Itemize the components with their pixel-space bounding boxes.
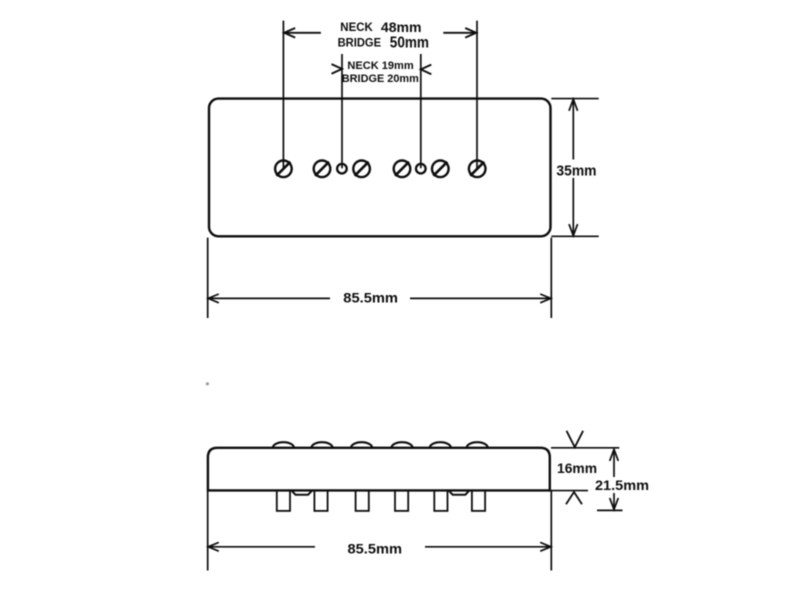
pole screw 2 (top view)	[314, 161, 331, 178]
svg-text:NECK: NECK	[340, 22, 373, 34]
extension line: side top right	[551, 447, 619, 449]
svg-text:BRIDGE 20mm: BRIDGE 20mm	[342, 73, 419, 85]
stray scan dot artifact	[206, 382, 209, 385]
pole screw 4 (top view)	[394, 161, 411, 178]
pole screw 5 (top view)	[432, 161, 449, 178]
pole screw shaft 2 (side view)	[314, 490, 327, 511]
extension line: outer left pole center	[282, 21, 284, 168]
pole screw shaft 4 (side view)	[395, 490, 408, 511]
pole screw shaft 3 (side view)	[356, 490, 369, 511]
arrowhead down onto top surface (16mm)	[567, 431, 584, 447]
pole screw head 2 (side view)	[312, 442, 333, 447]
extension line: side right down to 85.5 dim	[550, 491, 552, 571]
pole screw head 6 (side view)	[467, 442, 488, 447]
svg-text:BRIDGE: BRIDGE	[338, 36, 382, 50]
dimension arrow left (48/50mm)	[284, 28, 321, 38]
top view: pickup cover body	[209, 99, 551, 237]
pole screw head 5 (side view)	[430, 442, 451, 447]
extension line: side bottom right	[551, 490, 588, 492]
pole screw 1 (top view)	[275, 161, 292, 178]
pole screw head 4 (side view)	[392, 442, 413, 447]
side view: pickup body fill	[209, 448, 549, 491]
svg-text:NECK 19mm: NECK 19mm	[347, 60, 414, 72]
pole screw shaft 6 (side view)	[472, 490, 485, 511]
pole screw 3 (top view)	[353, 161, 370, 178]
mounting hole left (top view)	[337, 164, 347, 174]
dimension arrow right (48/50mm)	[443, 28, 476, 38]
svg-text:35mm: 35mm	[556, 163, 596, 179]
bobbin bump left below baseplate (side view)	[292, 491, 312, 495]
extension line: side left down to 85.5 dim	[207, 491, 209, 571]
pole screw head 1 (side view)	[273, 442, 294, 447]
pole screw head 3 (side view)	[351, 442, 372, 447]
pole screw shaft 1 (side view)	[277, 490, 290, 511]
dimension arrowhead right (19/20mm)	[421, 65, 432, 75]
svg-text:85.5mm: 85.5mm	[348, 541, 403, 557]
dimension line 21.5mm (vertical with arrowheads)	[610, 449, 619, 509]
svg-text:16mm: 16mm	[557, 460, 597, 476]
pole screw 6 (top view)	[469, 161, 486, 178]
dimension line 85.5mm (side view) with arrowheads	[208, 542, 551, 551]
dimension line 35mm (vertical with arrowheads)	[569, 99, 578, 236]
mounting hole right (top view)	[416, 164, 426, 174]
svg-text:50mm: 50mm	[390, 34, 429, 51]
extension line: cover right down to 85.5 dim	[550, 238, 552, 318]
bobbin bump right below baseplate (side view)	[449, 491, 469, 495]
extension line: cover top right	[551, 98, 598, 100]
extension line: cover bottom right	[551, 235, 598, 237]
dimension arrowhead left (19/20mm)	[332, 64, 343, 74]
extension line: cover left down to 85.5 dim	[207, 238, 209, 318]
svg-text:85.5mm: 85.5mm	[343, 290, 398, 306]
pole screw shaft 5 (side view)	[434, 490, 447, 511]
dimension line 85.5mm (top view) with arrowheads	[208, 294, 551, 303]
extension line: inner right mounting hole	[420, 54, 422, 168]
tick line at bottom of 21.5mm	[597, 509, 623, 511]
arrowhead up onto base line (16mm)	[566, 492, 582, 504]
svg-text:21.5mm: 21.5mm	[595, 477, 649, 493]
extension line: inner left mounting hole	[341, 54, 343, 168]
side view: pickup body outline	[208, 448, 550, 491]
extension line: outer right pole center	[476, 21, 478, 168]
